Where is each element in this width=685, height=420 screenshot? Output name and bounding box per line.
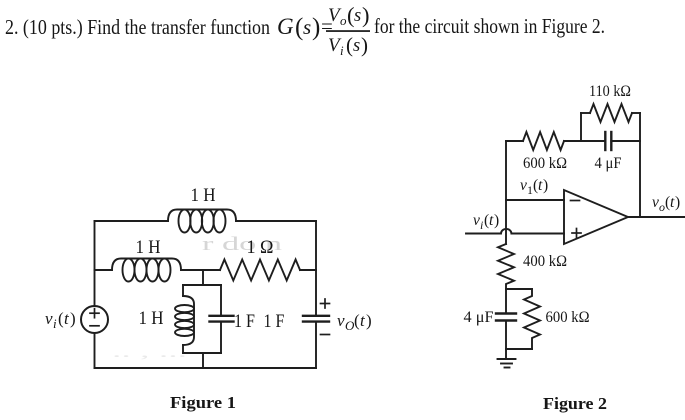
svg-text:): ) [675,194,680,211]
ground symbol [498,359,516,368]
svg-text:600 kΩ: 600 kΩ [523,155,567,172]
resistor 400k (vertical) [498,244,514,289]
faint scan bleed-through text [202,234,283,255]
label vi(t) (Fig1 source) [45,309,76,331]
svg-text:v: v [652,194,659,211]
wire: Fig1 bottom [95,367,317,369]
wire: stub middle node down [202,270,204,285]
wire: 110k right lead [632,112,640,114]
wire: 110k branch right riser [639,113,641,141]
wire: cap branch bottom lead [220,322,222,353]
op-amp - input mark [571,200,580,202]
svg-text:): ) [362,3,370,28]
wire: Fig1 outer loop left side [94,221,96,306]
wire: inverting input lead v1 [506,199,564,201]
svg-text:o: o [340,13,347,28]
svg-text:): ) [366,311,372,330]
source - mark [90,325,99,327]
svg-text:): ) [312,14,320,41]
wire: middle rail right of resistor [300,269,316,271]
svg-text:i: i [480,218,483,232]
label vi(t) (Fig2 input) [473,212,499,232]
svg-text:G: G [277,14,294,39]
svg-text:v: v [473,212,480,229]
svg-text:400 kΩ: 400 kΩ [523,253,567,270]
svg-text:1 F: 1 F [234,311,255,332]
wire: Fig1 top left segment [95,220,169,222]
wire: middle rail between coil and resistor [181,269,220,271]
svg-text:1 Ω: 1 Ω [247,237,274,258]
svg-text:): ) [361,33,368,57]
inductor L3 1H (vertical, parallel block) [175,296,194,345]
label v1(t) [520,177,548,197]
svg-text:.. , ...: .. , ... [112,345,187,361]
wire: cap branch top lead [220,285,222,316]
wire: feedback left lead [506,140,523,142]
wire: feedback middle segment [564,140,605,142]
wire: cap branch top lead [505,289,507,314]
wire: vi input with crossover hop [466,229,564,234]
svg-text:(: ( [346,33,353,57]
wire: 110k left lead [581,112,590,114]
svg-text:1 H: 1 H [136,237,161,258]
wire: feedback right lead [611,140,640,142]
source Vi (independent voltage source) [81,306,108,333]
resistor 600k (feedback) [523,132,564,150]
svg-text:1 H: 1 H [139,308,164,329]
svg-text:1 H: 1 H [191,185,216,206]
label vo(t) (Fig2 output) [652,194,680,214]
label vo(t) (Fig1 output) [337,311,372,333]
svg-text:i: i [53,316,57,331]
svg-text:i: i [340,43,344,58]
svg-text:for the circuit shown in Figur: for the circuit shown in Figure 2. [374,14,605,38]
svg-text:Figure 2: Figure 2 [543,394,607,413]
wire: Fig1 right side [315,221,317,316]
wire: cap branch bottom lead to ground [505,321,507,360]
svg-text:600 kΩ: 600 kΩ [546,309,590,326]
wire: left branch bottom lead [182,345,184,353]
capacitor 4uF (lower) [496,312,516,314]
svg-text:): ) [70,309,76,328]
wire: node to 600k branch top jog [506,288,532,290]
wire: Fig1 top right segment [236,220,316,222]
svg-text:s: s [353,36,360,56]
svg-text:): ) [543,177,548,194]
svg-text:v: v [337,311,345,330]
svg-text:4 μF: 4 μF [595,155,622,172]
wire: Fig1 middle rail left [95,269,113,271]
op-amp + input mark [572,232,581,234]
wire: Fig2 left vertical (inverting node) [505,141,507,244]
svg-text:Figure 1: Figure 1 [170,393,236,412]
capacitor 4uF (feedback) [604,132,606,150]
svg-text:s: s [303,15,311,39]
wire: 600k branch bottom jog [506,348,532,350]
op-amp U1 [564,190,628,244]
svg-text:v: v [520,177,527,194]
svg-text:s: s [354,6,361,26]
svg-text:110 kΩ: 110 kΩ [589,83,631,100]
polarity + (output cap) [321,303,330,305]
capacitor C1 1F (parallel block) [210,315,234,317]
wire: right vertical down to output [639,141,641,217]
wire: parallel block bottom bus [183,352,221,354]
resistor 600k (vertical) [524,289,540,349]
source + mark [90,312,99,314]
inductor L1 1H (top) [168,210,236,233]
wire: left branch of parallel block (top lead) [182,285,184,296]
wire: stub bottom bus to bottom rail [202,353,204,368]
fraction bar [326,30,370,32]
svg-text:2. (10 pts.) Find the transfer: 2. (10 pts.) Find the transfer function [5,15,270,39]
wire: parallel block top bus [183,284,221,286]
svg-text:v: v [45,309,53,328]
G(s)= expression [277,14,333,41]
wire: output [628,216,685,218]
svg-text:): ) [494,212,499,229]
svg-text:1 F: 1 F [264,311,285,332]
capacitor C2 1F (output) [303,315,329,317]
wire: 110k branch left riser [580,113,582,141]
fraction Vo(s)/Vi(s) [328,3,370,59]
svg-text:4 μF: 4 μF [464,309,494,326]
polarity - (output cap) [321,334,330,336]
resistor 110k [590,104,632,122]
inductor L2 1H (middle) [112,259,181,282]
resistor R1 1ohm [220,260,300,281]
